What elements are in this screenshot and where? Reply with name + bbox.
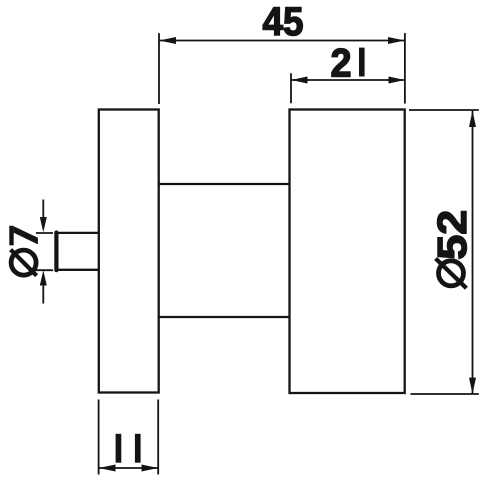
dimension D52 line [472,111,474,394]
svg-text:52: 52 [429,210,475,260]
spindle stub left edge [54,233,58,271]
dimension 11 line [99,467,158,469]
dimension D7 label digit 7 (rotated) [9,226,13,246]
dimension 21 arrow left [291,77,307,84]
dimension 11 extension line left [98,400,100,475]
dimension 21 line [291,79,405,81]
dimension D52 label diameter circle [439,261,464,286]
neck bottom line [159,316,290,318]
knob head outline [290,110,405,394]
dimension D7 upper arrow line [42,200,44,221]
dimension 11 extension line right [157,400,159,475]
spindle stub top line [57,232,99,234]
dimension 45 line [159,40,405,42]
dimension 21 label digit 1 bar [359,48,365,77]
dimension D52 arrow down [469,378,476,394]
dimension 21 arrow right [389,77,405,84]
dimension 45 extension line left [158,33,160,104]
svg-text:2: 2 [331,42,352,86]
dimension 11 label first bar [116,434,122,463]
dimension D7 tick top [36,232,53,234]
spindle stub bottom line [57,269,99,271]
dimension D52 arrow up [469,111,476,127]
backplate (rose) outline [99,110,159,393]
dimension D7 label diameter slash [11,250,37,276]
dimension 21 extension line left [290,73,292,103]
dimension 45/21 extension line right [404,33,406,103]
dimension 11 arrow right [142,465,159,472]
dimension D52 extension line top [409,109,479,111]
dimension D7 label diameter circle [11,250,36,275]
neck top line [159,183,290,185]
dimension D7 lower arrowhead (up) [40,270,47,285]
dimension D52 extension line bottom [411,393,479,395]
dimension D7 lower arrow line [42,283,44,304]
dimension 11 label second bar [135,434,141,463]
dimension D52 label diameter slash [436,259,467,289]
dimension D7 tick bottom [36,269,53,271]
svg-text:45: 45 [263,0,304,44]
dimension 45 arrow left [159,37,176,44]
dimension 45 arrow right [388,37,405,44]
dimension D7 upper arrowhead (down) [40,217,47,232]
dimension 11 arrow left [99,465,116,472]
